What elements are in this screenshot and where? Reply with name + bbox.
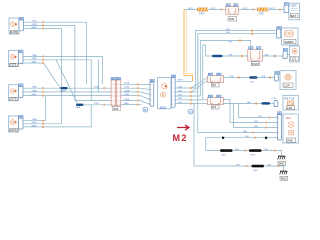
svg-text:20A: 20A [229, 75, 233, 78]
svg-text:1: 1 [151, 85, 152, 87]
ground MH2 symbol [280, 171, 288, 180]
svg-text:3: 3 [112, 92, 113, 94]
fuse row sleeve [212, 55, 223, 58]
svg-text:38D: 38D [178, 98, 182, 100]
tweeter tag [283, 48, 287, 51]
svg-text:5: 5 [114, 100, 115, 102]
svg-text:6: 6 [172, 103, 173, 105]
svg-text:137B: 137B [32, 24, 38, 26]
svg-text:138A: 138A [124, 89, 130, 92]
connector R2 upper [207, 76, 223, 83]
svg-text:2: 2 [151, 90, 152, 92]
svg-text:5: 5 [278, 137, 279, 139]
clock spring connector strip [275, 74, 279, 81]
svg-text:AVC: AVC [286, 116, 291, 120]
svg-text:139A: 139A [32, 86, 38, 89]
wire labels HP1 [32, 20, 38, 29]
wire p5 row [75, 99, 111, 101]
svg-text:BP17: BP17 [178, 80, 184, 82]
fuse F4 tags [249, 47, 261, 50]
svg-text:C173: C173 [10, 128, 17, 132]
annotation arrow M2 [177, 125, 189, 130]
shield sleeve on p6 wire [75, 104, 83, 110]
svg-text:MH: MH [245, 136, 249, 138]
connector R34 tags [111, 77, 121, 80]
svg-text:CANL: CANL [75, 106, 82, 109]
svg-text:20A: 20A [178, 85, 182, 88]
ground run MH1 splice 2 [274, 150, 276, 152]
clock spring tag [275, 71, 279, 74]
clock spring box [280, 71, 296, 90]
svg-text:BP17: BP17 [270, 8, 276, 10]
svg-text:F28: F28 [287, 106, 292, 110]
battery BAT1 connector strip [284, 5, 289, 13]
svg-text:138B: 138B [32, 58, 38, 60]
svg-text:16A: 16A [247, 101, 251, 104]
svg-text:8502: 8502 [160, 105, 167, 109]
svg-text:4: 4 [112, 96, 113, 98]
svg-text:R36: R36 [229, 17, 235, 21]
svg-text:MH: MH [268, 164, 272, 166]
connector R2 tags [208, 73, 221, 76]
speaker HP4 (rear right) [9, 116, 24, 132]
wire battery row [184, 9, 284, 11]
wires speaker HP3 [23, 88, 111, 95]
junction J2 [265, 137, 267, 139]
fan unit feed labels [243, 116, 262, 133]
splice GP joints battery row [221, 9, 281, 11]
svg-text:4: 4 [119, 96, 120, 98]
harness GP6 right [258, 8, 269, 15]
fan unit connector strip [277, 115, 281, 141]
horn splices [251, 30, 253, 35]
junction J1 [222, 137, 224, 139]
svg-text:MAS: MAS [32, 124, 37, 127]
battery row labels [188, 8, 276, 10]
wire p6 row [76, 104, 111, 106]
svg-text:CLIP: CLIP [284, 83, 290, 87]
speaker HP1 (front left tweeter) [9, 18, 26, 34]
splices HP3 [42, 87, 44, 96]
svg-text:R107: R107 [252, 62, 259, 66]
svg-text:137A: 137A [32, 20, 38, 23]
svg-text:MH2: MH2 [281, 177, 287, 181]
svg-text:2: 2 [119, 88, 120, 90]
svg-text:138B: 138B [124, 94, 130, 96]
battery BAT1 tag [284, 3, 288, 6]
svg-text:MAS: MAS [124, 102, 129, 105]
splices HP1 [42, 21, 44, 29]
svg-text:38C: 38C [229, 42, 233, 44]
svg-text:MH2: MH2 [253, 170, 258, 172]
wires speaker HP4 [23, 96, 91, 127]
svg-text:R2: R2 [212, 83, 216, 87]
svg-text:4: 4 [151, 100, 152, 102]
battery feed wire orange [175, 10, 193, 82]
svg-text:4: 4 [117, 96, 118, 98]
tweeter box [287, 46, 299, 62]
svg-text:10A: 10A [226, 28, 230, 31]
wires speaker HP2 [23, 57, 103, 105]
svg-text:BP17: BP17 [211, 8, 217, 10]
tweeter connector strip [283, 51, 287, 59]
harness GP6 left [197, 8, 208, 15]
clock spring row splices [238, 77, 271, 79]
amplifier right splices [190, 87, 192, 104]
svg-text:4: 4 [172, 96, 173, 98]
splices R34 right [137, 83, 139, 105]
wire R2 to clock spring [223, 77, 274, 79]
svg-text:3: 3 [117, 92, 118, 94]
fan unit tag [278, 112, 282, 115]
amplifier left tag [150, 79, 154, 82]
svg-text:M2: M2 [173, 133, 188, 143]
amplifier right wires [175, 31, 277, 166]
svg-text:138A: 138A [32, 54, 38, 57]
horn connector strip [277, 29, 281, 38]
svg-text:3: 3 [172, 92, 173, 94]
svg-text:1: 1 [114, 84, 115, 86]
connector tag HP1 [19, 17, 23, 20]
svg-text:C BAT: C BAT [290, 5, 298, 8]
wires to connector R3 lower [191, 100, 208, 104]
svg-text:MH1: MH1 [279, 162, 285, 166]
svg-text:3: 3 [278, 127, 279, 129]
sleeve on fuse F28 row [262, 102, 271, 105]
svg-text:AVERT: AVERT [285, 40, 294, 44]
svg-text:R48: R48 [287, 139, 293, 143]
connector R34 pass-through [111, 80, 121, 107]
svg-text:MAS: MAS [32, 93, 37, 96]
ground run MAS splice 2 [277, 165, 279, 167]
connector R36 tags [226, 4, 238, 7]
svg-text:2: 2 [114, 88, 115, 90]
wires speaker HP1 [26, 22, 87, 124]
fuse F28 row splice [255, 103, 257, 105]
svg-text:1: 1 [119, 84, 120, 86]
svg-text:C172: C172 [10, 97, 17, 101]
svg-text:2: 2 [278, 122, 279, 124]
svg-text:2: 2 [117, 88, 118, 90]
svg-text:B: B [144, 108, 146, 112]
node C ring [188, 109, 193, 114]
wires to connector R2 upper [192, 78, 207, 92]
svg-text:2: 2 [172, 88, 173, 90]
svg-text:38H: 38H [243, 131, 247, 133]
fuse F28 connector strip [274, 101, 278, 107]
connector R36 label [228, 17, 237, 21]
svg-text:4: 4 [278, 132, 279, 134]
svg-text:16B: 16B [258, 116, 262, 118]
svg-text:GP6: GP6 [259, 11, 265, 15]
speaker HP3 (rear left) [9, 85, 24, 101]
svg-text:20B: 20B [178, 90, 182, 92]
svg-text:137B: 137B [124, 87, 130, 89]
svg-text:20B: 20B [261, 76, 265, 78]
svg-text:MH: MH [235, 149, 239, 151]
svg-text:5: 5 [172, 100, 173, 102]
connector R34 label [112, 107, 120, 111]
svg-text:MH: MH [236, 164, 240, 166]
wire labels R34 right [124, 82, 130, 105]
ground run MH1 splice [245, 150, 247, 152]
wires R3 to fan unit and fuse [198, 34, 277, 151]
horn box [282, 28, 299, 45]
svg-text:R3: R3 [212, 105, 216, 109]
connector R2 label [211, 83, 219, 87]
svg-text:3: 3 [151, 95, 152, 97]
fuse row labels [229, 42, 269, 57]
svg-text:1: 1 [278, 117, 279, 119]
svg-text:BP17: BP17 [188, 8, 194, 10]
svg-text:3: 3 [119, 92, 120, 94]
clock spring row label [229, 75, 265, 78]
fuse row wire to tweeter [262, 55, 283, 57]
svg-text:MH1: MH1 [251, 154, 256, 156]
svg-text:1: 1 [117, 84, 118, 86]
svg-text:10B: 10B [226, 32, 230, 34]
svg-text:1: 1 [172, 81, 173, 83]
clock spring row sleeve [249, 76, 257, 83]
ground run MAS splice [246, 165, 248, 167]
node B ring [143, 107, 148, 112]
connector R3 tags [208, 95, 221, 98]
svg-text:3: 3 [114, 92, 115, 94]
connector R3 lower [207, 98, 223, 105]
svg-text:BAT: BAT [291, 14, 297, 18]
ground run MAS sleeve [252, 165, 265, 172]
svg-text:153C: 153C [94, 103, 100, 105]
svg-text:MH: MH [178, 102, 182, 104]
horn tag [277, 26, 281, 29]
svg-text:5: 5 [112, 100, 113, 102]
connector tag HP2 [19, 50, 23, 53]
svg-text:137A: 137A [124, 82, 130, 85]
svg-text:38F: 38F [254, 121, 258, 123]
ground run MH1 sleeve 1 [220, 149, 233, 156]
svg-text:C170: C170 [10, 30, 17, 34]
svg-text:MAS: MAS [32, 60, 37, 63]
svg-text:139B: 139B [32, 90, 38, 92]
svg-text:38C: 38C [178, 94, 182, 96]
wire labels HP2 [32, 54, 38, 63]
svg-text:MAS: MAS [32, 26, 37, 29]
svg-text:4: 4 [114, 96, 115, 98]
svg-text:R34: R34 [113, 107, 119, 111]
amplifier left connector strip [150, 82, 154, 106]
svg-text:5: 5 [117, 100, 118, 102]
svg-text:GP6: GP6 [199, 11, 205, 15]
svg-text:5: 5 [151, 104, 152, 106]
connector tag HP4 [19, 115, 23, 118]
amplifier right connector strip [171, 78, 175, 108]
svg-text:5: 5 [119, 100, 120, 102]
fuse F28 box [283, 95, 298, 110]
battery BAT1 box [289, 3, 300, 20]
amplifier right wire labels [178, 85, 182, 103]
amplifier right tag [171, 75, 175, 78]
svg-text:140A: 140A [32, 118, 38, 121]
svg-text:140B: 140B [32, 122, 38, 124]
ground run MH1 sleeve 2 [249, 149, 262, 156]
connector R3 label [211, 105, 219, 109]
shield sleeve on HP3 wire [59, 87, 67, 93]
ground run MAS wire [194, 166, 284, 171]
fan unit feed splices [252, 117, 270, 134]
wires R34 to amplifier [121, 84, 150, 104]
splices HP2 [42, 56, 44, 64]
connector tag HP3 [19, 84, 23, 87]
svg-text:F28 7.5A: F28 7.5A [284, 97, 294, 100]
fuse F4 label [251, 62, 259, 66]
svg-text:139A: 139A [124, 98, 130, 101]
svg-text:C171: C171 [10, 62, 17, 66]
svg-text:TW1: TW1 [250, 81, 255, 83]
svg-text:38D: 38D [229, 54, 233, 56]
ground run MH1 wire [206, 151, 282, 157]
fan unit box [283, 114, 298, 143]
fuse F4 box [248, 49, 262, 61]
ground MH1 symbol [278, 156, 286, 165]
svg-text:6: 6 [119, 105, 120, 107]
splices HP4 [42, 120, 44, 128]
svg-text:MH: MH [265, 149, 269, 151]
svg-text:2: 2 [112, 88, 113, 90]
speaker HP2 (front left door) [9, 51, 24, 67]
wire labels HP4 [32, 118, 38, 127]
svg-text:BP17: BP17 [243, 8, 249, 10]
wire labels HP3 [32, 86, 38, 96]
svg-text:MH1: MH1 [222, 154, 227, 156]
fuse row splices [239, 40, 275, 57]
svg-text:C2R: C2R [272, 98, 277, 100]
amplifier U1 box [158, 78, 172, 110]
svg-text:1: 1 [112, 84, 113, 86]
svg-text:38G: 38G [254, 126, 258, 128]
horn wires labels [226, 28, 230, 34]
fuse F28 row label [247, 98, 277, 104]
svg-text:153B: 153B [94, 87, 100, 89]
svg-text:CANH: CANH [59, 90, 66, 93]
svg-text:170: 170 [292, 57, 297, 61]
connector R36 [226, 7, 239, 15]
